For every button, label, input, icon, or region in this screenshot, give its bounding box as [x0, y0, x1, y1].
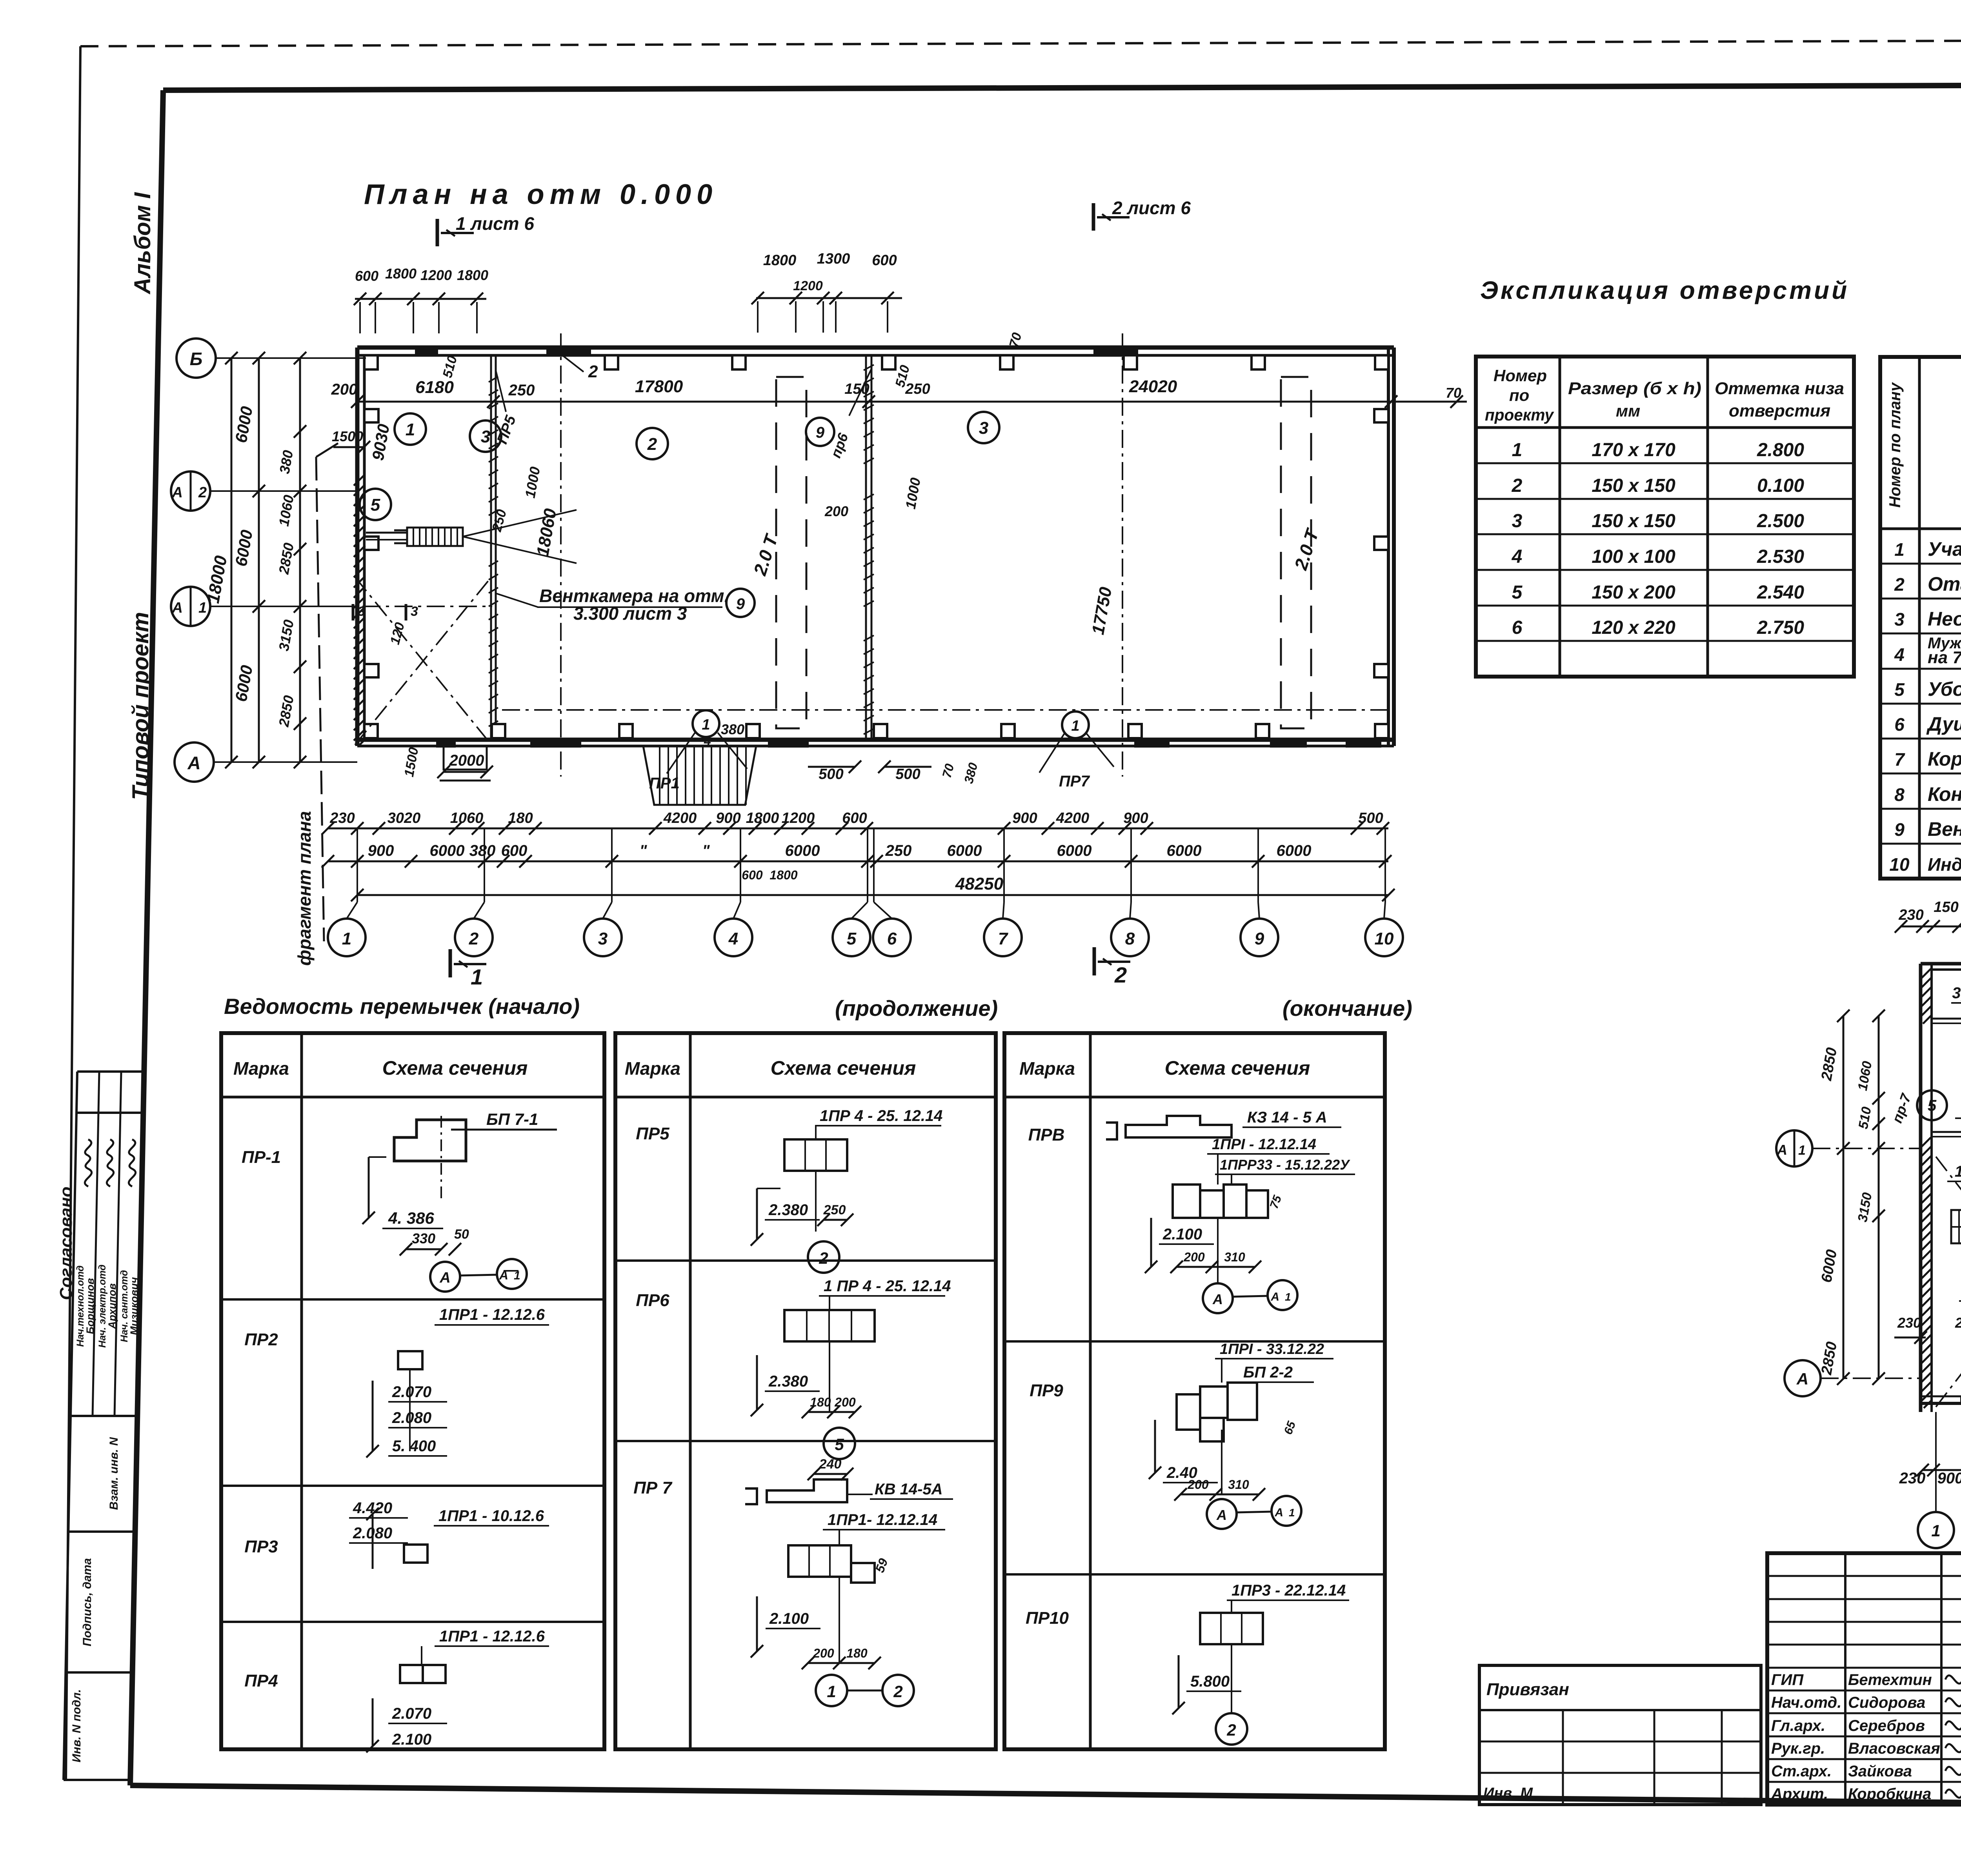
- svg-text:600: 600: [742, 868, 763, 882]
- svg-text:1: 1: [1894, 539, 1905, 560]
- svg-text:2.540: 2.540: [1757, 582, 1804, 603]
- svg-text:7: 7: [1894, 749, 1905, 770]
- svg-text:1: 1: [1285, 1291, 1291, 1303]
- svg-text:5: 5: [835, 1435, 844, 1454]
- svg-text:150 х 150: 150 х 150: [1592, 475, 1675, 496]
- svg-text:ПР4: ПР4: [244, 1671, 278, 1690]
- svg-text:А: А: [1216, 1507, 1227, 1523]
- svg-text:17800: 17800: [635, 377, 683, 396]
- svg-text:310: 310: [1224, 1250, 1245, 1264]
- svg-text:Серебров: Серебров: [1848, 1717, 1925, 1734]
- svg-text:3: 3: [411, 604, 418, 619]
- svg-text:1800: 1800: [769, 868, 797, 882]
- svg-text:Венткамера: Венткамера: [1928, 818, 1961, 840]
- svg-text:": ": [702, 842, 710, 859]
- svg-text:1: 1: [1955, 1163, 1961, 1180]
- svg-text:ПР1: ПР1: [649, 775, 680, 792]
- svg-text:180: 180: [508, 810, 533, 826]
- svg-text:3.300 лист 3: 3.300 лист 3: [573, 603, 687, 624]
- svg-text:4: 4: [1512, 546, 1523, 567]
- svg-text:9: 9: [736, 595, 745, 613]
- svg-text:200: 200: [834, 1395, 856, 1409]
- svg-text:1: 1: [1512, 440, 1523, 460]
- svg-text:4. 386: 4. 386: [388, 1209, 434, 1227]
- svg-text:1200: 1200: [782, 810, 815, 826]
- svg-text:200: 200: [331, 381, 358, 398]
- svg-text:отверстия: отверстия: [1729, 401, 1830, 420]
- svg-text:50: 50: [454, 1227, 469, 1242]
- svg-text:Отапливаемый склад: Отапливаемый склад: [1928, 573, 1961, 595]
- svg-text:ГИП: ГИП: [1771, 1671, 1804, 1689]
- svg-text:120 х 220: 120 х 220: [1592, 617, 1675, 638]
- svg-text:2.380: 2.380: [768, 1201, 808, 1219]
- svg-text:ПР3: ПР3: [244, 1537, 278, 1556]
- svg-text:по: по: [1509, 386, 1529, 404]
- svg-text:Схема сечения: Схема сечения: [382, 1057, 528, 1079]
- svg-text:Коробкина: Коробкина: [1848, 1785, 1931, 1803]
- svg-text:Схема сечения: Схема сечения: [1165, 1057, 1310, 1079]
- svg-text:А: А: [1796, 1370, 1808, 1388]
- svg-text:200: 200: [1187, 1478, 1209, 1492]
- svg-text:2: 2: [1894, 574, 1905, 595]
- svg-text:4200: 4200: [1056, 810, 1090, 826]
- svg-text:1060: 1060: [450, 810, 484, 826]
- svg-text:Уборная: Уборная: [1928, 678, 1961, 700]
- svg-text:48250: 48250: [955, 874, 1004, 893]
- svg-text:3: 3: [1512, 511, 1523, 531]
- svg-text:Участок дефектовки: Участок дефектовки: [1928, 538, 1961, 560]
- svg-text:А: А: [187, 753, 200, 773]
- svg-text:Мизикович: Мизикович: [128, 1277, 140, 1335]
- svg-text:Марка: Марка: [233, 1058, 289, 1079]
- svg-text:7: 7: [998, 929, 1009, 948]
- svg-text:200: 200: [813, 1646, 834, 1660]
- svg-text:Размер (б х h): Размер (б х h): [1568, 379, 1701, 398]
- svg-text:А: А: [172, 600, 183, 616]
- svg-text:А: А: [1212, 1291, 1223, 1307]
- svg-text:500: 500: [1358, 810, 1383, 826]
- svg-text:ПР-1: ПР-1: [242, 1148, 281, 1167]
- svg-text:ПР9: ПР9: [1030, 1381, 1063, 1400]
- svg-text:2.500: 2.500: [1757, 511, 1804, 531]
- svg-text:КЗ 14 - 5 А: КЗ 14 - 5 А: [1247, 1109, 1327, 1126]
- svg-text:Рук.гр.: Рук.гр.: [1771, 1740, 1825, 1757]
- svg-text:Согласовано: Согласовано: [56, 1186, 76, 1300]
- svg-text:Инв. N подл.: Инв. N подл.: [70, 1689, 83, 1763]
- svg-text:1: 1: [827, 1682, 836, 1701]
- svg-text:Подпись, дата: Подпись, дата: [81, 1558, 94, 1647]
- svg-text:3: 3: [979, 419, 988, 438]
- svg-text:А: А: [172, 484, 183, 501]
- svg-text:2.800: 2.800: [1757, 440, 1804, 460]
- svg-text:1500: 1500: [332, 428, 363, 444]
- svg-text:6000: 6000: [1057, 842, 1092, 859]
- svg-text:10: 10: [1889, 854, 1910, 875]
- svg-text:Власовская: Власовская: [1848, 1740, 1940, 1757]
- svg-text:1: 1: [1289, 1507, 1295, 1519]
- svg-text:200: 200: [824, 503, 848, 519]
- svg-text:Душевая: Душевая: [1926, 713, 1961, 735]
- svg-text:ПР10: ПР10: [1026, 1609, 1069, 1628]
- svg-text:1: 1: [1798, 1143, 1806, 1158]
- svg-text:500: 500: [895, 766, 920, 782]
- svg-text:1800: 1800: [763, 252, 797, 269]
- svg-text:6: 6: [1512, 617, 1523, 638]
- svg-text:БП 7-1: БП 7-1: [486, 1110, 538, 1128]
- svg-text:6: 6: [887, 929, 897, 948]
- svg-text:2: 2: [198, 484, 207, 501]
- svg-text:Номер: Номер: [1493, 366, 1547, 385]
- svg-text:Взам. инв. N: Взам. инв. N: [107, 1437, 120, 1510]
- svg-text:9: 9: [1255, 929, 1264, 948]
- svg-text:Инв. М: Инв. М: [1483, 1785, 1533, 1801]
- svg-text:330: 330: [412, 1230, 435, 1246]
- svg-text:1ПРР33 - 15.12.22У: 1ПРР33 - 15.12.22У: [1220, 1157, 1350, 1173]
- svg-text:70: 70: [1446, 385, 1461, 401]
- svg-text:600: 600: [501, 842, 528, 859]
- svg-text:250: 250: [905, 381, 930, 397]
- svg-text:2.100: 2.100: [1162, 1226, 1202, 1243]
- svg-text:Ведомость перемычек (начало): Ведомость перемычек (начало): [224, 994, 580, 1019]
- svg-text:2: 2: [1512, 475, 1523, 496]
- svg-text:600: 600: [842, 810, 867, 826]
- svg-text:1: 1: [702, 717, 710, 733]
- svg-text:2: 2: [1114, 963, 1127, 987]
- svg-text:3,4: 3,4: [1952, 984, 1961, 1002]
- svg-text:280: 280: [1955, 1315, 1961, 1331]
- svg-text:1: 1: [514, 1269, 520, 1282]
- svg-text:3: 3: [598, 929, 608, 948]
- svg-text:Типовой проект: Типовой проект: [128, 612, 153, 800]
- svg-text:": ": [640, 842, 648, 859]
- svg-text:1200: 1200: [793, 278, 823, 293]
- svg-text:4: 4: [728, 929, 738, 948]
- svg-text:Контора: Контора: [1928, 783, 1961, 805]
- svg-text:2: 2: [588, 362, 598, 381]
- svg-text:3: 3: [481, 427, 490, 446]
- svg-text:А: А: [1777, 1142, 1787, 1158]
- svg-text:380: 380: [469, 842, 496, 859]
- svg-text:Б: Б: [190, 349, 203, 369]
- svg-text:6000: 6000: [430, 842, 465, 859]
- svg-text:ПР5: ПР5: [636, 1124, 669, 1143]
- svg-text:6000: 6000: [1277, 842, 1312, 859]
- svg-text:5: 5: [847, 929, 857, 948]
- svg-text:1 лист 6: 1 лист 6: [456, 213, 534, 234]
- svg-text:Привязан: Привязан: [1486, 1680, 1569, 1699]
- svg-text:2000: 2000: [449, 752, 484, 769]
- svg-text:ПР 7: ПР 7: [633, 1478, 673, 1498]
- svg-text:2.380: 2.380: [768, 1373, 808, 1390]
- svg-text:24020: 24020: [1129, 377, 1177, 396]
- svg-text:1ПР1 - 10.12.6: 1ПР1 - 10.12.6: [438, 1507, 544, 1525]
- svg-text:Архит.: Архит.: [1771, 1785, 1828, 1803]
- svg-text:230: 230: [1898, 907, 1923, 923]
- svg-text:380: 380: [721, 721, 744, 737]
- svg-text:600: 600: [355, 268, 378, 284]
- svg-text:2.100: 2.100: [392, 1731, 431, 1748]
- svg-text:230: 230: [329, 810, 355, 826]
- svg-text:2: 2: [647, 435, 657, 454]
- svg-text:Борщинов: Борщинов: [84, 1278, 96, 1334]
- svg-text:1: 1: [471, 964, 483, 989]
- svg-text:150: 150: [844, 381, 869, 397]
- svg-text:1: 1: [1931, 1521, 1940, 1540]
- svg-text:1 ПР 4 - 25. 12.14: 1 ПР 4 - 25. 12.14: [824, 1277, 951, 1295]
- svg-text:2 лист 6: 2 лист 6: [1112, 198, 1191, 218]
- svg-text:1800: 1800: [457, 267, 488, 283]
- svg-text:5: 5: [1894, 679, 1905, 700]
- svg-text:Зайкова: Зайкова: [1848, 1763, 1912, 1780]
- svg-text:2.100: 2.100: [769, 1610, 809, 1627]
- svg-text:Сидорова: Сидорова: [1848, 1694, 1925, 1711]
- svg-text:Марка: Марка: [1019, 1058, 1075, 1079]
- svg-text:1ПРI - 12.12.14: 1ПРI - 12.12.14: [1212, 1136, 1316, 1153]
- svg-text:1200: 1200: [420, 267, 452, 283]
- svg-text:180: 180: [810, 1395, 831, 1409]
- svg-text:(окончание): (окончание): [1282, 996, 1412, 1021]
- svg-text:Отметка низа: Отметка низа: [1715, 379, 1844, 398]
- svg-text:1800: 1800: [746, 810, 779, 826]
- svg-text:180: 180: [846, 1646, 868, 1660]
- svg-text:6180: 6180: [415, 378, 454, 397]
- svg-text:6000: 6000: [785, 842, 820, 859]
- svg-text:на 7 отделений: на 7 отделений: [1928, 648, 1961, 667]
- svg-text:Экспликация отверстий: Экспликация отверстий: [1480, 276, 1849, 304]
- svg-text:1: 1: [342, 929, 351, 948]
- svg-text:КВ 14-5А: КВ 14-5А: [875, 1481, 943, 1498]
- svg-text:4200: 4200: [663, 810, 697, 826]
- svg-text:2.750: 2.750: [1757, 617, 1804, 638]
- svg-text:2: 2: [819, 1249, 828, 1267]
- svg-text:Коридор, тамбур: Коридор, тамбур: [1928, 748, 1961, 770]
- svg-text:1ПР1 - 12.12.6: 1ПР1 - 12.12.6: [439, 1306, 545, 1323]
- svg-text:900: 900: [1012, 810, 1037, 826]
- svg-text:5: 5: [1512, 582, 1523, 603]
- svg-text:230: 230: [1897, 1315, 1921, 1331]
- svg-text:6000: 6000: [947, 842, 982, 859]
- svg-text:3: 3: [1894, 609, 1905, 630]
- svg-text:150 х 150: 150 х 150: [1592, 511, 1675, 531]
- svg-text:Архипов: Архипов: [106, 1283, 118, 1329]
- svg-text:1ПР1 - 12.12.6: 1ПР1 - 12.12.6: [439, 1628, 545, 1645]
- svg-text:170 х 170: 170 х 170: [1592, 440, 1675, 460]
- svg-text:900: 900: [368, 842, 394, 859]
- svg-text:900: 900: [716, 810, 740, 826]
- svg-text:900: 900: [1123, 810, 1148, 826]
- svg-text:100 х 100: 100 х 100: [1592, 546, 1675, 567]
- svg-text:План на отм 0.000: План на отм 0.000: [364, 179, 718, 210]
- svg-text:Ст.арх.: Ст.арх.: [1771, 1763, 1832, 1780]
- svg-text:Нач.отд.: Нач.отд.: [1771, 1694, 1841, 1711]
- svg-text:1: 1: [406, 420, 415, 439]
- svg-text:2: 2: [1226, 1721, 1236, 1739]
- svg-text:А: А: [439, 1270, 450, 1286]
- svg-text:А: А: [499, 1268, 508, 1282]
- svg-text:3: 3: [358, 604, 365, 619]
- svg-text:8: 8: [1894, 784, 1905, 805]
- svg-text:600: 600: [872, 252, 897, 269]
- svg-text:А: А: [1270, 1290, 1279, 1303]
- svg-text:1ПР1- 12.12.14: 1ПР1- 12.12.14: [828, 1511, 937, 1528]
- svg-text:230: 230: [1899, 1470, 1926, 1487]
- svg-text:Альбом I: Альбом I: [130, 192, 155, 295]
- svg-text:1ПРI - 33.12.22: 1ПРI - 33.12.22: [1220, 1341, 1324, 1357]
- svg-text:250: 250: [508, 382, 535, 399]
- svg-text:ПРВ: ПРВ: [1028, 1125, 1065, 1145]
- svg-text:240: 240: [819, 1457, 842, 1472]
- svg-text:0.100: 0.100: [1757, 475, 1804, 496]
- svg-text:Гл.арх.: Гл.арх.: [1771, 1717, 1825, 1734]
- svg-text:5. 400: 5. 400: [392, 1437, 436, 1455]
- svg-text:Бетехтин: Бетехтин: [1848, 1671, 1932, 1689]
- svg-text:1300: 1300: [817, 251, 850, 267]
- svg-text:ПР6: ПР6: [636, 1291, 669, 1310]
- svg-text:10: 10: [1375, 929, 1394, 948]
- svg-text:2: 2: [893, 1682, 902, 1701]
- svg-text:2.530: 2.530: [1757, 546, 1804, 567]
- svg-text:1: 1: [1071, 718, 1079, 734]
- svg-text:Схема сечения: Схема сечения: [771, 1057, 916, 1079]
- svg-text:900: 900: [1937, 1470, 1961, 1487]
- svg-text:150: 150: [1934, 899, 1958, 915]
- svg-text:8: 8: [1125, 929, 1135, 948]
- svg-text:1ПР 4 - 25. 12.14: 1ПР 4 - 25. 12.14: [820, 1107, 942, 1125]
- svg-text:6: 6: [1894, 714, 1905, 735]
- svg-text:мм: мм: [1616, 402, 1640, 420]
- svg-text:250: 250: [885, 842, 912, 859]
- svg-text:5: 5: [1928, 1097, 1937, 1114]
- svg-text:9: 9: [816, 424, 825, 441]
- svg-text:150 х 200: 150 х 200: [1592, 582, 1675, 603]
- svg-text:6000: 6000: [1167, 842, 1202, 859]
- svg-text:2: 2: [469, 929, 479, 948]
- svg-text:4: 4: [704, 734, 711, 748]
- svg-text:Индивидуальный тепловой пункт: Индивидуальный тепловой пункт: [1928, 854, 1961, 875]
- svg-text:БП 2-2: БП 2-2: [1243, 1364, 1293, 1381]
- svg-text:2.070: 2.070: [392, 1705, 431, 1722]
- svg-text:250: 250: [823, 1203, 846, 1217]
- svg-text:200: 200: [1183, 1250, 1205, 1264]
- svg-text:фрагмент плана: фрагмент плана: [294, 811, 315, 966]
- svg-text:2.080: 2.080: [392, 1409, 431, 1427]
- svg-text:310: 310: [1228, 1478, 1249, 1492]
- svg-text:1800: 1800: [385, 266, 417, 282]
- svg-text:9: 9: [1894, 819, 1905, 840]
- svg-text:А: А: [1274, 1506, 1283, 1519]
- svg-text:Номер по плану: Номер по плану: [1886, 382, 1904, 508]
- svg-text:ПР2: ПР2: [244, 1330, 278, 1349]
- svg-text:4: 4: [1894, 644, 1905, 665]
- svg-text:500: 500: [819, 766, 843, 782]
- svg-text:3020: 3020: [387, 810, 421, 826]
- svg-text:Марка: Марка: [625, 1058, 680, 1079]
- svg-text:проекту: проекту: [1485, 406, 1555, 424]
- svg-text:ПР7: ПР7: [1059, 773, 1090, 790]
- svg-text:5: 5: [371, 495, 380, 515]
- svg-text:(продолжение): (продолжение): [835, 996, 998, 1021]
- svg-text:Неотапливаемый склад: Неотапливаемый склад: [1928, 608, 1961, 630]
- svg-text:2.070: 2.070: [392, 1383, 431, 1401]
- svg-text:5.800: 5.800: [1190, 1673, 1230, 1690]
- svg-text:1ПР3 - 22.12.14: 1ПР3 - 22.12.14: [1232, 1582, 1346, 1599]
